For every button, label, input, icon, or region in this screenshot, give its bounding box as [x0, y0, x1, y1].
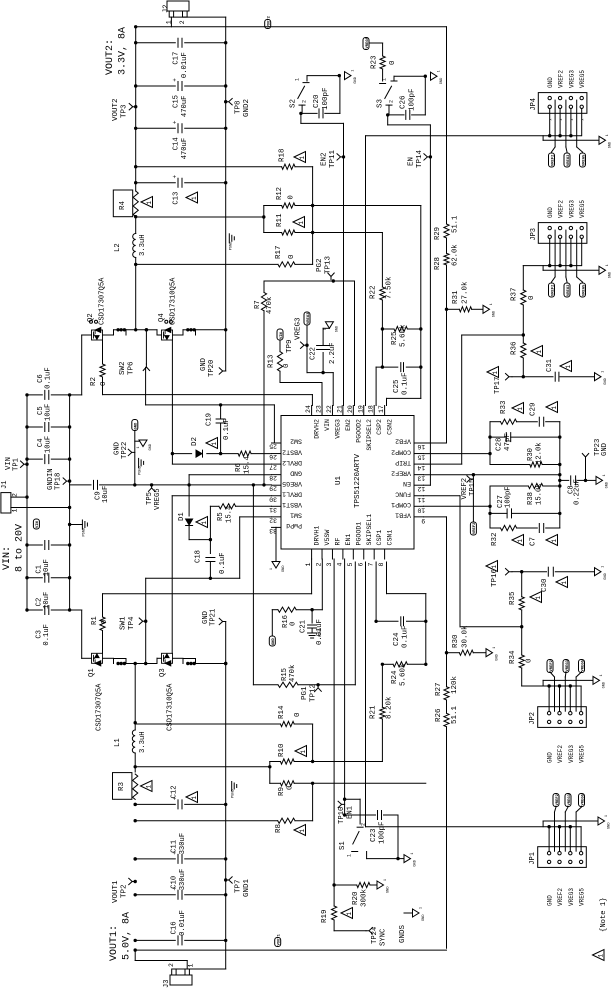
svg-text:62.0k: 62.0k [452, 244, 460, 266]
svg-text:2: 2 [361, 823, 367, 826]
svg-text:R26: R26 [435, 708, 443, 722]
svg-text:VOUT1: VOUT1 [112, 880, 120, 903]
svg-text:R2: R2 [90, 377, 98, 386]
svg-text:SW1: SW1 [120, 616, 128, 630]
svg-text:C26: C26 [400, 95, 408, 109]
svg-text:1: 1 [551, 406, 558, 410]
svg-text:470uF: 470uF [181, 138, 189, 160]
svg-text:EN: EN [403, 480, 411, 487]
svg-text:1: 1 [299, 156, 306, 160]
svg-text:C30: C30 [541, 578, 549, 592]
svg-text:15: 15 [417, 454, 425, 461]
svg-text:1: 1 [605, 134, 609, 136]
svg-text:1: 1 [517, 539, 524, 543]
svg-text:1: 1 [322, 328, 326, 330]
svg-text:15.4: 15.4 [244, 455, 252, 474]
svg-text:x: x [559, 119, 563, 121]
svg-text:0: 0 [287, 785, 295, 790]
svg-text:R15: R15 [281, 668, 289, 681]
svg-text:15.0k: 15.0k [536, 483, 544, 505]
svg-text:C16: C16 [171, 921, 179, 934]
svg-text:Q4: Q4 [158, 313, 166, 322]
svg-text:TP24: TP24 [371, 927, 379, 944]
svg-text:GND: GND [609, 142, 613, 148]
svg-text:VREG5: VREG5 [582, 154, 586, 166]
svg-text:R21: R21 [370, 705, 378, 719]
svg-text:0: 0 [101, 620, 109, 624]
svg-text:D2: D2 [191, 437, 199, 446]
svg-text:7: 7 [368, 563, 375, 567]
svg-text:GND: GND [282, 566, 286, 572]
svg-text:3.3uH: 3.3uH [139, 234, 147, 256]
svg-text:R3: R3 [118, 781, 126, 791]
svg-text:DRVL2: DRVL2 [282, 459, 302, 466]
svg-text:VOUT1:: VOUT1: [109, 925, 120, 961]
svg-text:C13: C13 [173, 192, 181, 205]
svg-text:GND: GND [604, 573, 608, 579]
svg-text:R17: R17 [275, 245, 283, 259]
svg-text:PG1: PG1 [301, 686, 309, 700]
svg-text:C31: C31 [546, 359, 554, 372]
svg-text:x: x [549, 119, 553, 121]
svg-text:0: 0 [100, 381, 108, 386]
svg-text:TP9: TP9 [286, 339, 294, 353]
svg-text:TP6: TP6 [128, 361, 136, 375]
svg-text:8 to 20V: 8 to 20V [15, 524, 26, 572]
svg-text:VREG5: VREG5 [579, 70, 586, 88]
svg-text:GND: GND [604, 378, 608, 384]
svg-text:9: 9 [421, 517, 425, 524]
svg-text:TRIP: TRIP [395, 459, 411, 466]
svg-text:4: 4 [336, 563, 343, 567]
svg-text:GND: GND [440, 78, 444, 84]
svg-text:VIN: VIN [280, 331, 284, 339]
svg-text:1: 1 [601, 566, 605, 568]
svg-text:TP2: TP2 [121, 884, 129, 898]
svg-text:1: 1 [300, 750, 307, 754]
svg-text:300k: 300k [361, 888, 369, 907]
svg-text:23: 23 [316, 405, 323, 413]
svg-text:19: 19 [357, 405, 364, 413]
svg-text:PGOOD1: PGOOD1 [355, 522, 362, 546]
svg-text:VREG5: VREG5 [581, 793, 585, 805]
svg-text:Q1: Q1 [88, 668, 96, 677]
svg-text:VREG3: VREG3 [568, 70, 575, 88]
svg-text:100pF: 100pF [322, 87, 330, 110]
svg-text:TP5: TP5 [146, 492, 154, 505]
svg-text:2: 2 [302, 100, 308, 103]
svg-text:1: 1 [536, 350, 543, 354]
svg-text:0.1uF: 0.1uF [219, 552, 227, 574]
svg-text:R30: R30 [452, 634, 460, 648]
svg-text:120k: 120k [451, 675, 459, 694]
svg-text:SKIPSEL2: SKIPSEL2 [366, 419, 373, 451]
svg-text:1: 1 [410, 853, 414, 855]
svg-text:EN1: EN1 [347, 806, 355, 819]
svg-text:R1: R1 [91, 616, 99, 625]
svg-text:J1: J1 [1, 481, 9, 489]
svg-text:R38: R38 [527, 492, 535, 505]
svg-text:VREG3: VREG3 [334, 419, 341, 439]
svg-text:S2: S2 [290, 99, 298, 108]
svg-text:J2: J2 [163, 5, 171, 13]
svg-text:R13: R13 [268, 354, 276, 368]
svg-text:PG2: PG2 [316, 258, 324, 272]
svg-text:R36: R36 [511, 341, 519, 355]
svg-text:1: 1 [298, 221, 305, 225]
svg-text:TP18: TP18 [55, 473, 63, 490]
svg-text:GND: GND [335, 326, 339, 332]
svg-text:6: 6 [357, 563, 364, 567]
svg-text:1: 1 [201, 521, 208, 525]
svg-text:R20: R20 [352, 891, 360, 905]
svg-text:R22: R22 [370, 285, 378, 299]
svg-text:1: 1 [489, 303, 493, 305]
svg-text:0.22uF: 0.22uF [574, 479, 582, 505]
svg-text:SYNC: SYNC [380, 928, 388, 946]
svg-text:TP15: TP15 [469, 479, 477, 496]
svg-text:Q3: Q3 [159, 668, 167, 677]
svg-text:1: 1 [598, 954, 605, 958]
svg-text:R24: R24 [391, 670, 399, 684]
svg-text:10: 10 [417, 506, 425, 513]
svg-text:0.01uF: 0.01uF [181, 52, 189, 78]
svg-text:2: 2 [389, 100, 395, 103]
svg-text:100pF: 100pF [504, 486, 512, 508]
svg-text:COMP2: COMP2 [391, 448, 411, 455]
svg-text:17: 17 [378, 405, 385, 413]
svg-text:R5: R5 [217, 512, 225, 521]
svg-text:1: 1 [305, 563, 312, 567]
svg-text:TP3: TP3 [121, 104, 129, 118]
svg-text:30.0k: 30.0k [462, 625, 470, 648]
svg-text:L1: L1 [114, 738, 122, 747]
svg-text:R29: R29 [434, 227, 442, 240]
svg-text:VREF2: VREF2 [461, 478, 469, 500]
svg-text:VREF2: VREF2 [558, 70, 565, 88]
svg-text:1: 1 [492, 647, 496, 649]
svg-text:0: 0 [288, 195, 296, 199]
svg-text:TP14: TP14 [416, 149, 424, 168]
svg-text:100pF: 100pF [409, 88, 417, 111]
svg-text:1: 1 [351, 70, 355, 72]
svg-text:VREG3: VREG3 [566, 659, 570, 671]
svg-text:PGOOD2: PGOOD2 [355, 419, 362, 443]
svg-text:C23: C23 [370, 828, 378, 842]
svg-text:GND: GND [290, 469, 302, 476]
svg-text:JP3: JP3 [530, 228, 538, 241]
svg-text:51.1: 51.1 [451, 705, 459, 724]
svg-text:7.50k: 7.50k [386, 276, 394, 299]
svg-text:VREG3: VREG3 [567, 284, 571, 296]
svg-text:SW1: SW1 [290, 512, 302, 519]
svg-text:VREF2: VREF2 [473, 522, 477, 534]
svg-text:1: 1 [599, 674, 603, 676]
svg-text:1: 1 [517, 407, 524, 411]
svg-text:VREF2: VREF2 [391, 469, 411, 476]
svg-text:VREG3: VREG3 [568, 200, 575, 218]
svg-text:GND: GND [496, 654, 500, 660]
svg-text:VREF2: VREF2 [551, 154, 555, 166]
svg-text:VREF2: VREF2 [557, 888, 564, 906]
svg-text:VOUT1: VOUT1 [278, 933, 282, 945]
svg-text:C15: C15 [173, 95, 181, 108]
svg-text:VREG3: VREG3 [568, 745, 575, 763]
svg-text:VFB2: VFB2 [395, 438, 411, 445]
svg-text:VOUT2: VOUT2 [268, 15, 272, 27]
svg-text:DRVL1: DRVL1 [282, 490, 302, 497]
svg-text:SKIPSEL1: SKIPSEL1 [366, 514, 373, 546]
svg-text:C7: C7 [530, 537, 538, 546]
svg-text:1: 1 [604, 815, 608, 817]
svg-text:U1: U1 [335, 475, 343, 485]
svg-text:C29: C29 [530, 402, 538, 416]
svg-text:VREG5: VREG5 [581, 659, 585, 671]
svg-text:VFB1: VFB1 [395, 512, 411, 519]
svg-text:TP7: TP7 [235, 879, 243, 893]
svg-text:15.4: 15.4 [226, 506, 234, 523]
svg-text:GND: GND [547, 895, 554, 906]
svg-text:47pF: 47pF [504, 433, 512, 451]
svg-text:+: + [172, 120, 179, 124]
svg-text:R25: R25 [391, 331, 399, 345]
svg-text:R34: R34 [509, 650, 517, 664]
svg-text:{Note 1}: {Note 1} [600, 897, 608, 932]
svg-text:0: 0 [294, 712, 302, 717]
svg-text:0.1uF: 0.1uF [402, 625, 410, 648]
svg-text:R30: R30 [527, 448, 535, 461]
svg-text:C14: C14 [173, 137, 181, 150]
svg-text:GND: GND [387, 887, 391, 893]
svg-text:R28: R28 [434, 257, 442, 270]
svg-text:1: 1 [146, 201, 153, 205]
svg-text:S1: S1 [339, 841, 347, 850]
svg-text:16: 16 [417, 443, 425, 450]
svg-text:31: 31 [269, 506, 277, 513]
svg-text:2: 2 [168, 963, 175, 967]
svg-text:5.60k: 5.60k [400, 663, 408, 686]
svg-text:SW2: SW2 [119, 361, 127, 375]
svg-text:GND: GND [609, 272, 613, 278]
svg-text:R11: R11 [276, 213, 284, 227]
svg-text:R4: R4 [119, 200, 127, 210]
svg-text:x: x [581, 119, 585, 121]
svg-text:PGND: PGND [139, 466, 143, 475]
svg-text:TP1: TP1 [13, 458, 21, 471]
svg-text:+: + [172, 175, 179, 179]
svg-text:EN2: EN2 [321, 152, 329, 166]
svg-text:25: 25 [269, 443, 277, 450]
svg-text:R37: R37 [511, 287, 519, 301]
svg-text:VREF2: VREF2 [557, 745, 564, 763]
svg-text:GND: GND [547, 77, 554, 88]
svg-text:V5SW: V5SW [324, 530, 331, 546]
svg-text:CSP2: CSP2 [376, 419, 383, 435]
svg-text:0: 0 [389, 60, 397, 65]
svg-text:VREF2: VREF2 [558, 200, 565, 218]
svg-text:C21: C21 [300, 620, 308, 633]
svg-text:PwPd: PwPd [286, 522, 302, 529]
svg-text:C17: C17 [173, 52, 181, 65]
svg-text:10uF: 10uF [43, 592, 51, 609]
svg-text:5.0V, 8A: 5.0V, 8A [122, 912, 133, 960]
svg-text:GND: GND [422, 915, 426, 921]
svg-text:R19: R19 [321, 909, 329, 923]
svg-text:VREG5: VREG5 [366, 36, 370, 48]
svg-text:12.0k: 12.0k [536, 442, 544, 464]
svg-text:VOUT2:: VOUT2: [105, 39, 116, 75]
svg-text:JP1: JP1 [529, 852, 537, 865]
svg-text:0: 0 [526, 658, 534, 663]
svg-text:1: 1 [299, 829, 306, 833]
svg-text:R18: R18 [279, 148, 287, 162]
svg-text:1: 1 [602, 474, 606, 476]
svg-text:RF: RF [334, 538, 341, 546]
svg-text:R8: R8 [275, 824, 283, 833]
svg-text:29: 29 [269, 485, 277, 492]
svg-text:R23: R23 [371, 55, 379, 69]
svg-text:Q2: Q2 [87, 313, 95, 322]
svg-text:1: 1 [535, 596, 542, 600]
svg-text:J3: J3 [163, 980, 171, 988]
svg-text:18: 18 [368, 405, 375, 413]
svg-text:0: 0 [528, 295, 536, 300]
svg-text:C19: C19 [206, 413, 214, 426]
svg-text:R14: R14 [278, 705, 286, 719]
svg-text:DRVH2: DRVH2 [314, 419, 321, 439]
svg-text:470k: 470k [289, 665, 297, 682]
svg-text:1: 1 [383, 879, 387, 881]
svg-text:R31: R31 [452, 290, 460, 304]
svg-text:CSD17307Q5A: CSD17307Q5A [96, 683, 104, 731]
svg-text:GND: GND [608, 823, 612, 829]
svg-text:VBST1: VBST1 [282, 501, 302, 508]
svg-text:VREF2: VREF2 [550, 659, 554, 671]
svg-text:EN: EN [408, 157, 416, 166]
svg-text:C18: C18 [195, 550, 203, 563]
svg-text:0: 0 [288, 254, 296, 259]
svg-text:0.1uF: 0.1uF [45, 367, 53, 389]
svg-text:R9: R9 [278, 787, 286, 796]
svg-text:VREG3: VREG3 [295, 317, 303, 340]
svg-text:GND: GND [493, 311, 497, 317]
svg-text:GND: GND [547, 207, 554, 218]
svg-text:10uF: 10uF [43, 559, 51, 576]
svg-text:PGND: PGND [229, 242, 233, 251]
svg-text:20: 20 [347, 405, 354, 413]
svg-text:R7: R7 [254, 300, 262, 309]
svg-text:VREG5: VREG5 [282, 480, 302, 487]
svg-text:EN2: EN2 [345, 419, 352, 431]
svg-text:VREF2: VREF2 [556, 793, 560, 805]
svg-text:51.1: 51.1 [452, 216, 460, 233]
svg-text:VIN:: VIN: [2, 546, 13, 570]
svg-text:C20: C20 [313, 94, 321, 108]
svg-text:C28: C28 [496, 437, 504, 451]
svg-text:0.01uF: 0.01uF [316, 619, 324, 645]
svg-text:GND: GND [149, 444, 153, 450]
svg-text:C11: C11 [171, 840, 179, 853]
svg-text:R32: R32 [491, 532, 499, 546]
svg-text:2.2uF: 2.2uF [329, 342, 337, 364]
svg-text:VREG5: VREG5 [579, 888, 586, 906]
svg-text:27: 27 [269, 464, 277, 471]
svg-text:3.3V, 8A: 3.3V, 8A [118, 27, 129, 75]
svg-text:1: 1 [605, 264, 609, 266]
svg-text:PGND: PGND [82, 528, 86, 537]
svg-text:TP8: TP8 [235, 100, 243, 114]
svg-text:22: 22 [326, 405, 333, 413]
svg-text:5: 5 [347, 563, 354, 567]
svg-text:10uF: 10uF [45, 404, 53, 421]
svg-text:27.0k: 27.0k [462, 281, 470, 304]
svg-text:GND: GND [601, 443, 609, 456]
svg-text:VOUT2: VOUT2 [112, 98, 120, 121]
svg-text:12: 12 [417, 485, 425, 492]
svg-text:C10: C10 [171, 876, 179, 889]
svg-text:2: 2 [179, 20, 186, 24]
svg-text:1: 1 [491, 565, 498, 569]
svg-text:1: 1 [419, 907, 423, 909]
svg-text:SW2: SW2 [290, 438, 302, 445]
svg-text:1: 1 [601, 371, 605, 373]
svg-text:0: 0 [283, 363, 291, 368]
svg-text:C22: C22 [310, 347, 318, 360]
svg-text:GND: GND [547, 752, 554, 763]
svg-text:VREG3: VREG3 [307, 312, 311, 324]
svg-text:0.1uF: 0.1uF [402, 372, 410, 395]
svg-text:CSP1: CSP1 [376, 530, 383, 546]
svg-text:x: x [570, 119, 574, 121]
svg-text:10uF: 10uF [45, 436, 53, 453]
svg-text:D1: D1 [178, 512, 186, 521]
svg-text:TP22: TP22 [121, 442, 129, 459]
svg-text:CSN2: CSN2 [387, 419, 394, 435]
svg-text:2: 2 [316, 563, 323, 567]
svg-text:1: 1 [187, 964, 194, 968]
svg-text:330uF: 330uF [179, 869, 187, 891]
svg-text:COMP1: COMP1 [391, 501, 411, 508]
svg-text:1: 1 [136, 447, 140, 449]
svg-text:JP2: JP2 [529, 712, 537, 725]
svg-text:L2: L2 [114, 243, 122, 252]
svg-text:1: 1 [346, 912, 353, 916]
svg-text:CSN1: CSN1 [387, 530, 394, 546]
svg-text:R27: R27 [435, 682, 443, 696]
svg-text:1: 1 [211, 442, 218, 446]
svg-text:470k: 470k [266, 297, 274, 314]
svg-text:14: 14 [417, 464, 425, 471]
svg-text:VREG5: VREG5 [154, 488, 162, 510]
svg-text:11: 11 [417, 496, 425, 503]
svg-text:CSD17310Q5A: CSD17310Q5A [170, 277, 178, 325]
svg-text:DRVH1: DRVH1 [314, 526, 321, 546]
svg-text:GND: GND [606, 482, 610, 488]
svg-text:CSD17307Q5A: CSD17307Q5A [99, 277, 107, 325]
svg-text:PGND: PGND [232, 789, 236, 798]
svg-text:3: 3 [326, 563, 333, 567]
svg-text:C12: C12 [171, 785, 179, 798]
svg-text:2: 2 [12, 493, 19, 497]
svg-text:GND: GND [354, 77, 358, 83]
svg-text:S3: S3 [377, 98, 385, 108]
svg-text:GND2: GND2 [243, 99, 251, 117]
svg-text:VREF2: VREF2 [551, 284, 555, 296]
svg-text:R12: R12 [276, 187, 284, 200]
svg-text:TP13: TP13 [325, 255, 333, 274]
svg-text:VREG5: VREG5 [579, 200, 586, 218]
svg-text:TP4: TP4 [128, 616, 136, 630]
